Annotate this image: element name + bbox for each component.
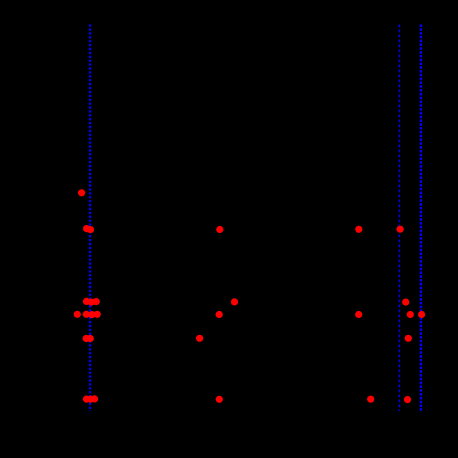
data point row y=302 triple at x=86.5,91.3,96.2: [83, 298, 90, 305]
data point (219.2,314.5): [216, 311, 223, 318]
vline A (blue dotted, x=90): [89, 25, 91, 412]
data point (421.6,314.5): [418, 311, 425, 318]
data point row y=193: [78, 189, 85, 196]
data point (358.8,229.3): [355, 226, 362, 233]
data point (199.6,338.3): [196, 335, 203, 342]
data point (234.5,301.9): [231, 298, 238, 305]
data point row y=338.5 pair at x=86.2,90.3: [83, 335, 90, 342]
data point row y=399 triple at x=86.5,90.5,94.5: [83, 396, 90, 403]
data point (219.3,399.3): [216, 396, 223, 403]
data point (219.8,229.5): [216, 226, 223, 233]
data point (400.3,229.4): [397, 226, 404, 233]
data point (408.3,338.3): [405, 335, 412, 342]
vline B (blue dotted, x=399.4): [398, 25, 400, 412]
vline C (blue dotted, x=420.9): [420, 25, 422, 412]
data point (370.7,399.2): [367, 396, 374, 403]
data point (407.5,399.6): [404, 396, 411, 403]
data point (405.7,302.1): [402, 299, 409, 306]
data point row y=229 pair at x=86.6,90.5: [83, 225, 90, 232]
data point (358.7,314.5): [355, 311, 362, 318]
data point row y=314.5 triple at x=86.3,91.9,97.2: [83, 311, 90, 318]
data point (410.3,314.5): [407, 311, 414, 318]
data point (77.3,314.3): [74, 311, 81, 318]
